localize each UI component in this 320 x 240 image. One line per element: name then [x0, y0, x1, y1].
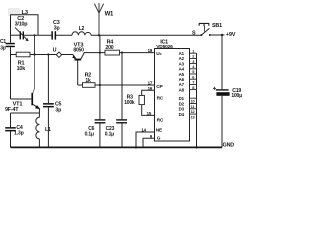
node tank tap: [34, 34, 36, 36]
svg-text:12: 12: [191, 109, 196, 114]
IC right inside labels: [179, 51, 185, 117]
transistor VT1 9F-4T: [5, 93, 40, 113]
wire address bus to ground: [196, 53, 198, 147]
inductor L3 (loop rectangle): [11, 15, 39, 36]
svg-text:1.3p: 1.3p: [14, 131, 24, 137]
svg-text:NE: NE: [156, 128, 163, 134]
wire Dout row y=85 (pin17 to R2 to VT3 base): [78, 84, 83, 86]
ground rail: [11, 146, 223, 148]
capacitor C19 100u (electrolytic): [213, 35, 242, 147]
svg-text:U: U: [53, 48, 57, 54]
wire vertical feed (antenna to supply/collector column): [99, 35, 101, 119]
svg-text:100k: 100k: [124, 100, 135, 106]
wire pin9 G to ground: [143, 138, 155, 147]
svg-text:8050: 8050: [73, 47, 84, 53]
svg-text:A8: A8: [179, 87, 185, 92]
capacitor C5 3p: [43, 55, 62, 148]
IC right pin numbers: [191, 48, 196, 119]
svg-text:0.1μ: 0.1μ: [85, 132, 94, 138]
svg-text:3p: 3p: [0, 46, 6, 52]
svg-text:RC: RC: [157, 117, 164, 123]
resistor R1 10k: [16, 52, 30, 72]
svg-text:CP: CP: [156, 84, 163, 90]
transistor VT3 8050: [72, 42, 84, 85]
inductor L1: [36, 113, 51, 147]
wire base row y=54.5: [11, 54, 17, 56]
svg-text:10: 10: [191, 99, 195, 104]
wire VT1 collector drop: [34, 35, 36, 54]
svg-text:18: 18: [148, 48, 153, 53]
capacitor C3 3p: [51, 20, 59, 39]
IC right pins A1-A8, D1-D4 with bus: [190, 53, 197, 114]
IC left pin numbers: [141, 48, 152, 139]
wire emitter row y=113: [11, 112, 40, 114]
svg-text:13: 13: [191, 115, 196, 120]
svg-text:9F-4T: 9F-4T: [5, 107, 19, 113]
svg-text:16: 16: [148, 86, 153, 91]
svg-text:1k: 1k: [85, 78, 91, 84]
svg-text:15: 15: [147, 111, 152, 116]
resistor R2 1k: [83, 72, 96, 87]
svg-text:+9V: +9V: [226, 32, 236, 38]
capacitor C4 1.3p (on lower left rail): [5, 125, 23, 137]
svg-text:C1: C1: [0, 39, 6, 45]
svg-text:11: 11: [191, 104, 196, 109]
capacitor C6 0.1u: [85, 119, 106, 137]
capacitor C23 0.1u: [105, 53, 127, 148]
svg-text:3p: 3p: [55, 107, 61, 113]
capacitor C2 (variable, 3/10p): [15, 16, 29, 42]
svg-text:D2: D2: [179, 101, 185, 106]
wire left rail lower: [10, 113, 12, 147]
svg-text:10k: 10k: [17, 66, 26, 72]
svg-text:D3: D3: [179, 107, 185, 112]
svg-text:U₊: U₊: [156, 51, 162, 57]
wire switch to +9V node: [211, 34, 225, 36]
svg-text:W1: W1: [105, 11, 114, 17]
resistor R4 200: [105, 40, 120, 55]
antenna W1: [94, 3, 103, 35]
svg-text:SB1: SB1: [212, 23, 222, 29]
svg-text:D1: D1: [179, 96, 185, 101]
wire left rail upper: [10, 35, 12, 99]
svg-text:VD5026: VD5026: [156, 44, 173, 50]
svg-text:G: G: [157, 136, 161, 142]
wire collector row y=52.6 to IC pin18: [84, 52, 105, 54]
IC U1 VD5026 box: [155, 39, 190, 141]
switch SB1 (push button): [192, 23, 222, 36]
node junction collector/R1 wire: [33, 53, 35, 55]
svg-text:L1: L1: [45, 127, 51, 133]
svg-text:D4: D4: [179, 112, 185, 117]
capacitor C1 3p (on left rail): [0, 39, 15, 52]
svg-text:200: 200: [105, 45, 113, 51]
svg-text:GND: GND: [223, 143, 235, 149]
wire pin14 TE to ground: [136, 132, 155, 147]
wire main top rail: [11, 34, 21, 36]
svg-text:100μ: 100μ: [231, 93, 242, 99]
svg-text:3p: 3p: [54, 25, 60, 31]
svg-text:3/10p: 3/10p: [15, 22, 29, 28]
svg-text:0.1μ: 0.1μ: [105, 132, 114, 138]
scan smudge top-left: [8, 8, 20, 16]
resistor R3 100k (pin16-pin15): [124, 90, 154, 115]
node U (diamond terminal): [53, 48, 62, 58]
node C5 tap: [47, 53, 49, 55]
node antenna junction: [98, 34, 100, 36]
inductor L2: [72, 32, 91, 35]
svg-text:S: S: [192, 31, 196, 37]
svg-text:L2: L2: [79, 26, 85, 32]
IC left pin labels: [156, 51, 164, 142]
svg-text:8: 8: [192, 85, 195, 90]
svg-text:RC: RC: [157, 95, 164, 101]
